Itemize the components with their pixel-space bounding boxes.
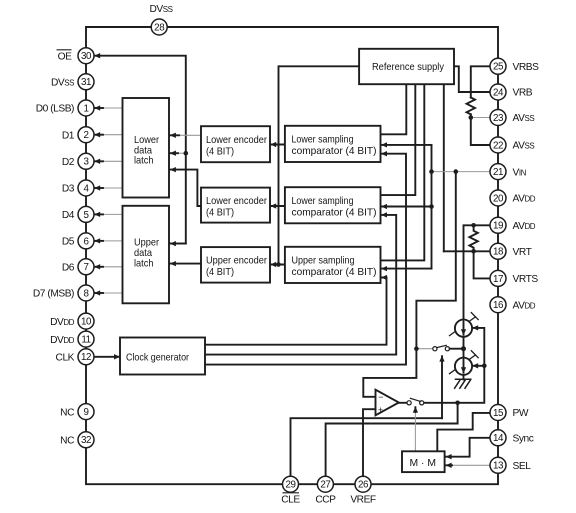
pin 15	[490, 405, 506, 421]
wire: pin 25 VRBS to resistor R1 top	[471, 66, 490, 97]
pin 26	[355, 476, 371, 492]
pin 22	[490, 137, 506, 153]
wire: Vin arrow into comparator 3	[382, 268, 432, 270]
ground symbol	[455, 379, 471, 388]
svg-text:11: 11	[81, 335, 90, 346]
wire: clock line 1 to comparator 1	[205, 154, 406, 365]
wire: Vin arrow into comparator 2	[382, 206, 432, 208]
pin 12	[78, 349, 94, 365]
svg-text:D0 (LSB): D0 (LSB)	[36, 104, 74, 115]
block: lower data latch	[123, 98, 170, 198]
svg-text:VRT: VRT	[513, 247, 532, 258]
wire: CCP branch down-left to pin 27	[326, 403, 458, 476]
svg-text:Lower sampling: Lower sampling	[292, 135, 354, 146]
svg-text:CCP: CCP	[315, 495, 336, 506]
pin 4	[78, 180, 94, 196]
svg-text:Reference supply: Reference supply	[372, 62, 445, 73]
svg-text:AVDD: AVDD	[513, 300, 536, 311]
svg-text:DVDD: DVDD	[50, 317, 75, 328]
svg-text:PW: PW	[513, 408, 529, 419]
svg-text:Sync: Sync	[513, 434, 534, 445]
svg-text:31: 31	[81, 77, 91, 88]
overline for CLE	[283, 492, 300, 494]
pin 16	[490, 297, 506, 313]
svg-text:comparator (4 BIT): comparator (4 BIT)	[292, 146, 377, 157]
svg-text:21: 21	[493, 167, 503, 178]
svg-text:NC: NC	[60, 407, 74, 418]
pin 1	[78, 100, 94, 116]
svg-text:DVDD: DVDD	[50, 335, 75, 346]
wire: gray line dot to pin 23 AVss	[471, 117, 490, 119]
svg-text:14: 14	[493, 433, 504, 444]
pin 6	[78, 233, 94, 249]
op-amp U1	[376, 390, 399, 416]
wire: reference supply bottom output 3 to comparator 3 top input	[381, 84, 425, 260]
svg-text:latch: latch	[134, 156, 154, 167]
svg-text:12: 12	[81, 352, 91, 363]
svg-text:28: 28	[154, 22, 165, 33]
svg-text:D5: D5	[62, 237, 75, 248]
svg-text:Lower: Lower	[134, 135, 160, 146]
svg-text:D2: D2	[62, 157, 75, 168]
svg-text:VREF: VREF	[350, 495, 376, 506]
node: comparator3 line junction dot	[276, 262, 281, 267]
svg-text:Upper encoder: Upper encoder	[206, 256, 268, 267]
wire: outer supply ring (top rail y=27, right rail x=498, bottom rail y=484.2, left rail x=86)	[86, 27, 498, 484]
svg-text:AVSS: AVSS	[513, 113, 535, 124]
block: upper encoder	[201, 247, 270, 283]
wire: D2 gray line latch to pin 3	[100, 160, 123, 162]
wire: switch right lead to midpoint	[450, 348, 461, 350]
block texts	[126, 62, 445, 469]
svg-text:20: 20	[493, 193, 504, 204]
node: Vin comparator2 dot	[429, 204, 434, 209]
pin 30	[78, 48, 94, 64]
svg-text:(4 BIT): (4 BIT)	[206, 147, 234, 158]
wire: comparator 3 to upper encoder	[271, 264, 285, 266]
pin circles	[78, 19, 506, 492]
pin 7	[78, 259, 94, 275]
wire: reference supply left output down to comparator3-encoder line	[279, 66, 360, 264]
block: lower encoder 2	[201, 188, 270, 223]
node: VRT junction dot	[471, 249, 476, 254]
node: Vin line dot 1	[429, 169, 434, 174]
wire: Vin vertical distribution to comparators	[431, 145, 433, 269]
block: lower sampling comparator 2	[285, 187, 381, 223]
svg-text:latch: latch	[134, 258, 154, 269]
svg-text:D3: D3	[62, 184, 75, 195]
svg-text:D7 (MSB): D7 (MSB)	[33, 289, 74, 300]
node: sample switch branch dot	[414, 346, 419, 351]
svg-text:VRB: VRB	[513, 88, 533, 99]
node: lower source branch dot	[482, 364, 487, 369]
block: clock generator	[120, 338, 205, 375]
svg-text:AVDD: AVDD	[513, 221, 536, 232]
wire: PW pin 15 to M.M block	[437, 413, 490, 451]
svg-text:VRTS: VRTS	[513, 274, 539, 285]
svg-text:9: 9	[83, 407, 88, 418]
wire: reference supply right output to pin 24 VRB	[454, 66, 490, 92]
wire: comparator 1 to lower encoder 1	[271, 144, 285, 146]
wire: SEL pin 13 gray line to M.M block	[449, 464, 490, 466]
wire: VREF riser from pin 26 to op-amp plus input	[363, 409, 376, 476]
svg-text:+: +	[378, 405, 383, 415]
wire: CLE riser from pin 29	[291, 418, 443, 476]
svg-text:DVSS: DVSS	[149, 4, 172, 15]
svg-text:23: 23	[493, 113, 504, 124]
wire: Vin sample-hold net down to op-amp minus input	[363, 172, 456, 397]
pin 11	[78, 331, 94, 347]
svg-text:25: 25	[493, 62, 504, 73]
svg-text:(4 BIT): (4 BIT)	[206, 267, 234, 278]
block: lower sampling comparator 1	[285, 126, 381, 162]
pin 21	[490, 164, 506, 180]
svg-text:13: 13	[493, 461, 504, 472]
wire: lower encoder 1 to lower data latch (gray)	[176, 134, 201, 136]
svg-text:−: −	[378, 392, 383, 402]
svg-text:18: 18	[493, 247, 504, 258]
svg-text:16: 16	[493, 300, 504, 311]
svg-text:CLK: CLK	[56, 353, 75, 364]
pin 5	[78, 206, 94, 222]
svg-text:D1: D1	[62, 130, 75, 141]
svg-text:Upper sampling: Upper sampling	[292, 256, 355, 267]
pin 13	[490, 457, 506, 473]
svg-text:Lower encoder: Lower encoder	[206, 135, 268, 146]
wire: D7 gray line latch to pin 8	[100, 292, 123, 294]
svg-text:VRBS: VRBS	[513, 62, 540, 73]
wire: clock line 2 to comparator 2	[205, 215, 396, 355]
wire: Vin gray line from pin 21	[432, 171, 490, 173]
pin 14	[490, 430, 506, 446]
svg-text:30: 30	[81, 51, 92, 62]
current source lower (transistor symbol)	[450, 355, 476, 374]
svg-text:D4: D4	[62, 210, 75, 221]
svg-text:22: 22	[493, 140, 503, 151]
wire: comparator 2 to lower encoder 2	[271, 205, 285, 207]
svg-text:AVDD: AVDD	[513, 194, 536, 205]
wire: op-amp output to current source control arrows	[424, 328, 485, 403]
block: reference supply	[359, 49, 454, 84]
wire: pin 17 VRTS riser to VRT line	[474, 251, 490, 278]
blocks	[120, 49, 454, 472]
svg-text:SEL: SEL	[513, 461, 532, 472]
svg-text:7: 7	[83, 262, 88, 273]
node: Vin sample branch dot	[454, 169, 459, 174]
svg-text:NC: NC	[60, 436, 74, 447]
pin 24	[490, 84, 506, 100]
svg-text:24: 24	[493, 87, 504, 98]
sampling switch between sources	[433, 347, 437, 351]
wire: OE gray stub into lower data latch	[175, 152, 186, 154]
svg-text:comparator (4 BIT): comparator (4 BIT)	[292, 267, 377, 278]
svg-text:AVSS: AVSS	[513, 141, 535, 152]
node: CCP branch dot	[455, 401, 460, 406]
pin 19	[490, 217, 506, 233]
pin 20	[490, 190, 506, 206]
pin 29	[283, 476, 299, 492]
wire: clock line 3 to comparator 3	[205, 278, 387, 345]
pin 17	[490, 270, 506, 286]
pin 25	[490, 58, 506, 74]
block: M.M	[402, 451, 445, 472]
wire: lower encoder 2 to lower data latch (elbow)	[171, 170, 202, 206]
pin 8	[78, 285, 94, 301]
wire: VRT pin 18 line	[444, 250, 490, 252]
wire: upper source to mid junction	[463, 337, 465, 358]
resistor R1 (VRB ladder top)	[467, 98, 475, 115]
wire: reference supply bottom output 2 to comparator 2 top input	[381, 84, 416, 195]
svg-text:27: 27	[320, 480, 330, 491]
wire: M.M gray control line to hold switch	[414, 410, 416, 452]
wire: R1 bottom to AVss dot and pin 22	[471, 114, 490, 145]
block: upper data latch	[123, 206, 170, 303]
svg-text:26: 26	[358, 480, 369, 491]
svg-text:CLE: CLE	[281, 495, 300, 506]
svg-text:Lower sampling: Lower sampling	[292, 196, 354, 207]
wire: D4 gray line latch to pin 5	[100, 213, 123, 215]
wire: reference supply bottom output 1 to comparator 1 top input	[381, 84, 407, 134]
svg-text:D6: D6	[62, 263, 75, 274]
svg-text:1: 1	[83, 103, 88, 114]
svg-text:32: 32	[81, 435, 91, 446]
node: OE junction dot	[184, 151, 189, 156]
svg-text:DVSS: DVSS	[51, 78, 74, 89]
wire: D0 gray line latch to pin 1	[100, 107, 123, 109]
svg-text:Upper: Upper	[134, 238, 160, 249]
wire: OE net vertical and horizontal to pin 30	[95, 56, 186, 244]
pin 9	[78, 404, 94, 420]
wire: op-amp output stub	[399, 402, 407, 404]
wire: D5 gray line latch to pin 6	[100, 240, 123, 242]
svg-text:M · M: M · M	[410, 458, 437, 469]
current source upper (transistor symbol)	[450, 317, 476, 336]
node: current source midpoint dot	[461, 346, 466, 351]
pin 3	[78, 153, 94, 169]
op-amp hold switch	[407, 401, 411, 405]
svg-text:VIN: VIN	[513, 167, 527, 178]
svg-text:OE: OE	[58, 52, 72, 63]
wire: Sync pin 14 to M.M block	[446, 438, 490, 457]
pin 23	[490, 110, 506, 126]
pin 32	[78, 432, 94, 448]
wire: gray lead to sampling switch	[416, 348, 432, 350]
wire: OE arrow into upper data latch	[171, 243, 186, 245]
wire: D6 gray line latch to pin 7	[100, 266, 123, 268]
wire: Vin arrow into comparator 1	[382, 144, 432, 146]
pin 18	[490, 243, 506, 259]
block: lower encoder 1	[201, 126, 270, 162]
wire: pin 19 AVdd to current source column	[464, 225, 491, 320]
pin 28	[151, 19, 167, 35]
wire: CLK pin 12 into clock generator	[95, 356, 120, 358]
overline for OE	[57, 49, 72, 51]
wire: D3 gray line latch to pin 4	[100, 187, 123, 189]
wire: reference supply bottom output 4 down to VRT line	[443, 84, 445, 251]
svg-text:comparator (4 BIT): comparator (4 BIT)	[292, 208, 377, 219]
svg-text:17: 17	[493, 274, 503, 285]
block: upper sampling comparator	[285, 247, 381, 283]
wire: upper encoder to upper data latch	[171, 263, 202, 265]
wire: D1 gray line latch to pin 2	[100, 134, 123, 136]
svg-text:Clock generator: Clock generator	[126, 352, 189, 363]
pin 10	[78, 313, 94, 329]
wire: CLE control arrow to sampling switch	[441, 356, 443, 418]
pin 27	[317, 476, 333, 492]
node: R2 top dot	[471, 223, 476, 228]
svg-text:Lower encoder: Lower encoder	[206, 196, 268, 207]
pin 31	[78, 74, 94, 90]
svg-text:2: 2	[83, 130, 88, 141]
svg-text:10: 10	[81, 317, 92, 328]
svg-text:15: 15	[493, 408, 504, 419]
svg-text:19: 19	[493, 221, 503, 232]
svg-text:29: 29	[285, 480, 295, 491]
wire: branch arrow into lower source	[473, 365, 485, 367]
wire: lower source to ground	[463, 375, 465, 380]
pin 2	[78, 127, 94, 143]
resistor R2 (VRT ladder)	[469, 225, 477, 251]
svg-text:(4 BIT): (4 BIT)	[206, 208, 234, 219]
node: R1 bottom junction dot	[469, 115, 474, 120]
